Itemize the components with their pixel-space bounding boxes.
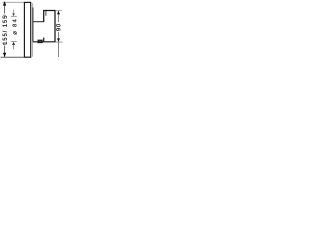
knob inner chamfer line bbox=[45, 11, 47, 16]
escutcheon plate (side view, 155 tall) bbox=[24, 2, 30, 57]
arrowhead down (right dim) bbox=[57, 38, 60, 42]
arrowhead up (inner dim) bbox=[12, 42, 15, 45]
sleeve edge line (light, full height) bbox=[32, 3, 34, 56]
neck top edge bbox=[33, 21, 44, 23]
svg-text:90: 90 bbox=[57, 23, 63, 31]
arrowhead up (right dim) bbox=[57, 11, 60, 15]
inner dimension lower stub bbox=[13, 45, 15, 50]
text end dash top bbox=[3, 14, 6, 16]
small stop button under neck bbox=[38, 40, 42, 43]
svg-text:⌀ 84: ⌀ 84 bbox=[13, 18, 19, 35]
arrowhead down (155 bottom) bbox=[3, 53, 6, 57]
tick at y=16.3 bbox=[11, 15, 17, 17]
arrowhead down (inner dim) bbox=[12, 13, 14, 16]
extension line top (plate top edge) bbox=[3, 1, 25, 3]
dimension line 155 (left, vertical) bbox=[4, 3, 6, 14]
bottom edge (neck + handle bottom) bbox=[33, 41, 56, 43]
extension line bottom / base line bbox=[1, 56, 25, 58]
svg-text:155/ 155: 155/ 155 bbox=[3, 15, 9, 45]
knob left edge lower segment bbox=[43, 38, 45, 42]
arrowhead up (155 top) bbox=[3, 1, 6, 6]
right dimension line bbox=[58, 11, 60, 22]
text end dash bottom bbox=[3, 44, 6, 46]
tick at y=41.6 bbox=[11, 41, 17, 43]
sleeve edge dark overlay (upper body) bbox=[32, 8, 34, 42]
tick at knob top (right dim) bbox=[56, 10, 62, 12]
tick at knob bottom (right dim) bbox=[56, 41, 63, 43]
handle knob outline bbox=[44, 11, 55, 42]
inner dimension upper stub bbox=[13, 10, 15, 14]
